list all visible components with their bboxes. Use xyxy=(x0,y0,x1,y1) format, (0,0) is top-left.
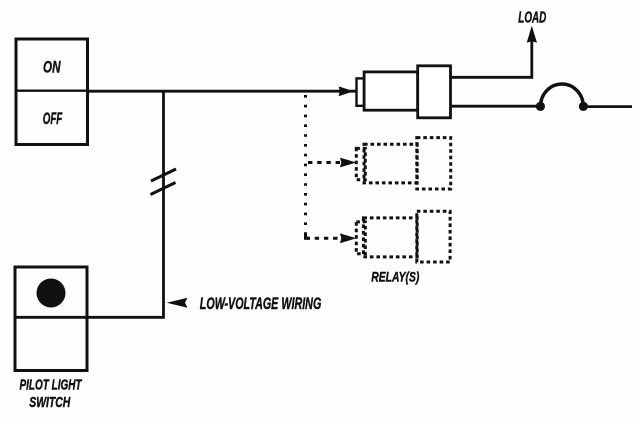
svg-text:LOW-VOLTAGE WIRING: LOW-VOLTAGE WIRING xyxy=(200,295,322,313)
arrowhead into relay K2 xyxy=(340,158,356,168)
switch box S1 (ON/OFF toggle switch) xyxy=(16,39,88,145)
label SWITCH xyxy=(29,395,70,411)
relay K2 body (dashed) xyxy=(364,144,417,183)
wire: relay K1 bottom output to contact xyxy=(451,105,541,108)
arrowhead into relay K3 xyxy=(340,233,356,243)
wire: relay K1 top output to LOAD xyxy=(451,40,532,77)
relay K2 collar (dashed) xyxy=(417,138,451,189)
relay K2 terminal bar (dashed) xyxy=(356,148,365,179)
pilot lamp (filled circle) xyxy=(37,279,66,308)
pilot light switch box xyxy=(15,267,87,371)
contact arc (normally-open contact) xyxy=(541,84,584,106)
svg-text:ON: ON xyxy=(43,58,61,76)
svg-text:OFF: OFF xyxy=(43,110,63,128)
label LOW-VOLTAGE WIRING xyxy=(200,295,322,313)
contact terminal dot left xyxy=(536,102,545,111)
label ON xyxy=(43,58,61,76)
relay K1 terminal bar xyxy=(357,78,365,105)
arrowhead up to LOAD xyxy=(527,26,537,43)
switch box divider xyxy=(16,89,88,91)
dotted wire: vertical branch to relays xyxy=(304,95,307,238)
label PILOT LIGHT xyxy=(20,377,83,393)
wire: main horizontal from switch to relay arrow xyxy=(88,90,357,93)
arrowhead into relay K1 xyxy=(339,86,354,96)
relay K3 body (dashed) xyxy=(363,218,417,257)
arrowhead pointing left at low-voltage wire xyxy=(167,298,188,308)
dotted wire: branch to relay K3 xyxy=(306,237,344,240)
label OFF xyxy=(43,110,63,128)
label LOAD xyxy=(518,9,546,26)
svg-text:RELAY(S): RELAY(S) xyxy=(371,268,419,284)
wire: contact to right edge xyxy=(583,105,632,108)
contact terminal dot right xyxy=(579,102,588,111)
dotted wire corner hook at branch K3 xyxy=(306,233,311,238)
wire: vertical low-voltage drop at x=163.5 xyxy=(162,91,165,318)
label RELAY(S) xyxy=(371,268,419,284)
wire: bottom horizontal from pilot switch to vertical wire xyxy=(15,316,165,319)
svg-text:PILOT LIGHT: PILOT LIGHT xyxy=(20,377,83,393)
svg-text:SWITCH: SWITCH xyxy=(29,395,70,411)
relay K1 collar xyxy=(418,66,451,118)
dotted wire: branch to relay K2 xyxy=(308,161,343,164)
relay K3 terminal bar (dashed) xyxy=(356,222,365,254)
svg-text:LOAD: LOAD xyxy=(518,9,546,26)
relay K3 collar (dashed) xyxy=(417,211,450,262)
break symbol (wiring continues) on vertical wire xyxy=(151,169,177,195)
relay K1 body xyxy=(364,72,418,110)
